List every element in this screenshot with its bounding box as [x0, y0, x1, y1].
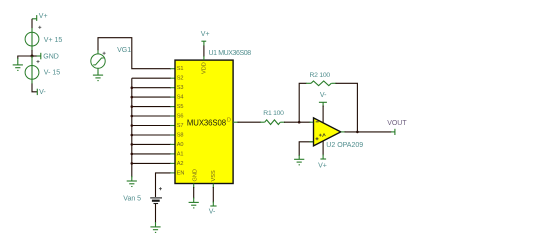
svg-text:V+: V+: [39, 13, 48, 20]
svg-text:U1 MUX36S08: U1 MUX36S08: [209, 50, 252, 57]
pin stub op-amp inverting input: [310, 121, 314, 123]
tap VOUT: [391, 129, 395, 135]
svg-text:A1: A1: [177, 151, 184, 157]
pin stub S1: [170, 68, 175, 70]
svg-text:R2 100: R2 100: [310, 72, 331, 79]
pin stub A1: [170, 153, 175, 155]
svg-text:VSS: VSS: [211, 170, 217, 181]
wire battery to ground: [155, 204, 157, 223]
voltage generator VG1: [91, 50, 105, 73]
voltage source V2 V- 15: [25, 56, 39, 84]
junction S8: [131, 134, 134, 137]
wire S5: [132, 106, 171, 108]
wire A0: [132, 143, 171, 145]
pin stub D: [233, 121, 238, 123]
junction S7: [131, 124, 134, 127]
tap V+ (below op-amp): [320, 155, 326, 160]
op-amp minus input mark: [316, 121, 319, 123]
ground (below VG1): [93, 72, 103, 80]
plus mark of V2: [37, 60, 40, 63]
svg-text:V+: V+: [318, 162, 327, 169]
wire S6: [132, 115, 171, 117]
pin stub EN: [170, 172, 175, 174]
svg-text:S2: S2: [177, 76, 184, 82]
ground (op-amp + input): [294, 155, 304, 165]
wire to ground: [18, 56, 32, 59]
ground (below U1 GND): [189, 198, 199, 208]
wire to GND tap: [32, 55, 37, 57]
junction (feedback right): [356, 131, 359, 134]
pin stub GND: [193, 184, 195, 189]
wire op-amp V+ supply pin: [322, 141, 324, 156]
wire output to VOUT: [345, 131, 392, 133]
multiplexer U1 MUX36S08 body: [175, 60, 233, 183]
wire: [31, 19, 33, 29]
op-amp U2 OPA209: [314, 118, 341, 146]
op-amp internal +V mark: [319, 134, 326, 137]
svg-text:GND: GND: [43, 53, 59, 60]
svg-text:GND: GND: [193, 169, 199, 181]
svg-text:VOUT: VOUT: [387, 120, 407, 127]
voltage source V1 V+ 15: [25, 28, 39, 51]
pin stub S8: [170, 134, 175, 136]
svg-text:S8: S8: [177, 133, 184, 139]
battery Van 5: [150, 198, 162, 204]
pin stub S2: [170, 77, 175, 79]
svg-text:V-: V-: [320, 92, 327, 99]
svg-text:S4: S4: [177, 95, 184, 101]
svg-text:A2: A2: [177, 161, 184, 167]
svg-text:A0: A0: [177, 142, 184, 148]
wire op-amp non-inverting input to ground: [299, 142, 313, 156]
wire A1: [132, 153, 171, 155]
tap V- (below U1): [210, 202, 216, 207]
svg-text:S3: S3: [177, 85, 184, 91]
svg-text:S7: S7: [177, 123, 184, 129]
wire R1 to op-amp: [284, 121, 311, 123]
svg-text:VG1: VG1: [117, 47, 131, 54]
junction A0: [131, 143, 134, 146]
wire bus S2-A2 to ground: [131, 78, 133, 177]
wire S3: [132, 87, 171, 89]
wire VG1 to S1: [98, 38, 171, 69]
svg-text:V- 15: V- 15: [44, 70, 60, 77]
svg-text:R1 100: R1 100: [263, 110, 284, 117]
junction A2: [131, 162, 134, 165]
plus mark of V1: [38, 26, 41, 29]
svg-text:V-: V-: [209, 209, 216, 216]
svg-text:S1: S1: [177, 66, 184, 72]
wire S2: [132, 77, 171, 79]
junction (supply mid): [31, 55, 34, 58]
ground (bus bottom): [127, 176, 137, 187]
svg-text:V+: V+: [201, 31, 210, 38]
svg-text:VDD: VDD: [201, 62, 207, 74]
wire feedback up to R2: [299, 83, 306, 122]
svg-text:S5: S5: [177, 104, 184, 110]
wire VSS pin: [212, 187, 214, 203]
pin stub op-amp non-inverting input: [310, 141, 314, 143]
svg-text:EN: EN: [177, 170, 185, 176]
pin stub S4: [170, 96, 175, 98]
pin stub S6: [170, 115, 175, 117]
svg-text:D: D: [227, 117, 231, 123]
svg-text:V-: V-: [39, 89, 46, 96]
wire GND pin: [193, 187, 195, 199]
pin stub VSS: [212, 184, 214, 189]
plus mark of Van: [159, 187, 162, 190]
wire S4: [132, 96, 171, 98]
svg-text:S6: S6: [177, 114, 184, 120]
pin stub VDD: [203, 56, 205, 60]
junction S5: [131, 105, 134, 108]
junction S6: [131, 115, 134, 118]
pin stub op-amp output: [341, 131, 346, 133]
svg-text:U2 OPA209: U2 OPA209: [326, 142, 363, 149]
wire VDD pin: [203, 46, 205, 58]
wire A2: [132, 162, 171, 164]
ground (left supply): [13, 58, 23, 70]
wire EN to battery: [156, 173, 172, 197]
tap GND: [37, 53, 41, 60]
pin stub S7: [170, 125, 175, 127]
wire S7: [132, 125, 171, 127]
plus mark of VG1: [103, 52, 106, 55]
pin stub S5: [170, 106, 175, 108]
tap V+ (above U1): [201, 41, 206, 46]
svg-text:V+ 15: V+ 15: [44, 37, 63, 44]
svg-text:MUX36S08: MUX36S08: [187, 119, 226, 128]
op-amp plus input mark: [316, 137, 319, 140]
resistor R2 100: [306, 81, 336, 86]
pin stub A0: [170, 143, 175, 145]
junction (feedback left): [298, 121, 301, 124]
wire: [31, 50, 33, 56]
tap V- (bottom left): [36, 89, 38, 95]
junction S3: [131, 86, 134, 89]
junction A1: [131, 153, 134, 156]
pin stub A2: [170, 162, 175, 164]
tap V+ (top left): [32, 15, 37, 21]
pin stub S3: [170, 87, 175, 89]
ground (below battery): [150, 222, 160, 232]
wire op-amp V- supply pin: [322, 106, 324, 123]
wire S8: [132, 134, 171, 136]
tap V- (above op-amp): [319, 102, 327, 107]
wire D to R1: [238, 121, 262, 123]
wire R2 to output: [336, 83, 358, 132]
junction S4: [131, 96, 134, 99]
wire: [32, 84, 37, 92]
svg-text:Van 5: Van 5: [123, 196, 141, 203]
resistor R1 100: [260, 120, 285, 125]
